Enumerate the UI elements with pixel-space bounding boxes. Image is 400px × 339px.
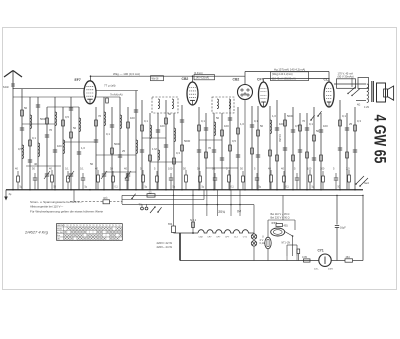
svg-text:4Ω: 4Ω bbox=[357, 104, 360, 107]
svg-text:25: 25 bbox=[349, 122, 353, 126]
svg-text:100: 100 bbox=[279, 122, 284, 126]
svg-text:100: 100 bbox=[160, 124, 165, 128]
svg-text:0,1MΩ: 0,1MΩ bbox=[278, 134, 282, 142]
svg-text:4: 4 bbox=[106, 225, 107, 227]
svg-text:4: 4 bbox=[103, 225, 104, 227]
svg-text:1:29: 1:29 bbox=[364, 106, 369, 109]
svg-text:70: 70 bbox=[98, 114, 102, 118]
svg-text:0,1: 0,1 bbox=[254, 119, 258, 123]
svg-text:2,0: 2,0 bbox=[346, 167, 350, 171]
svg-text:4: 4 bbox=[97, 225, 98, 227]
svg-text:22: 22 bbox=[149, 191, 153, 195]
svg-text:77 µ (alt): 77 µ (alt) bbox=[104, 84, 116, 88]
svg-text:220–: 220– bbox=[314, 269, 320, 271]
svg-text:0,1: 0,1 bbox=[212, 167, 216, 171]
svg-text:4: 4 bbox=[87, 225, 88, 227]
svg-text:220V~ 24 W: 220V~ 24 W bbox=[157, 245, 173, 249]
svg-text:50: 50 bbox=[216, 116, 220, 120]
svg-text:GW-Nr: GW-Nr bbox=[57, 225, 64, 227]
svg-text:2/4627 4 Krg: 2/4627 4 Krg bbox=[24, 229, 49, 234]
svg-text:4: 4 bbox=[119, 225, 120, 227]
svg-text:100: 100 bbox=[323, 124, 328, 128]
svg-text:Strom- u. Spannungswerte bei 2: Strom- u. Spannungswerte bei 220 V— bbox=[30, 200, 82, 204]
svg-text:RÖ: RÖ bbox=[104, 196, 108, 200]
svg-text:0,5: 0,5 bbox=[295, 124, 299, 128]
svg-text:0,05: 0,05 bbox=[302, 256, 307, 259]
svg-text:4: 4 bbox=[64, 225, 65, 227]
svg-text:NT1–2N: NT1–2N bbox=[282, 243, 291, 245]
svg-text:Si 0,2: Si 0,2 bbox=[190, 219, 197, 222]
svg-text:U: U bbox=[262, 236, 264, 239]
svg-text:140 4,2(mA): 140 4,2(mA) bbox=[196, 77, 210, 80]
svg-text:1,0: 1,0 bbox=[81, 146, 85, 150]
svg-text:1,0: 1,0 bbox=[240, 122, 244, 126]
svg-text:CF7: CF7 bbox=[257, 78, 264, 82]
svg-text:4: 4 bbox=[93, 225, 94, 227]
svg-text:Wk 08: Wk 08 bbox=[152, 77, 159, 80]
svg-text:0,3: 0,3 bbox=[357, 119, 361, 123]
svg-text:7mA/(mA): 7mA/(mA) bbox=[110, 93, 123, 97]
svg-text:0,1: 0,1 bbox=[65, 167, 69, 171]
svg-text:4: 4 bbox=[67, 225, 68, 227]
svg-text:TA: TA bbox=[139, 203, 143, 207]
svg-text:4: 4 bbox=[77, 225, 78, 227]
svg-text:100: 100 bbox=[307, 167, 312, 171]
svg-text:5000: 5000 bbox=[114, 142, 121, 146]
svg-text:0,3: 0,3 bbox=[176, 151, 180, 155]
svg-text:4: 4 bbox=[113, 225, 114, 227]
svg-text:EF7: EF7 bbox=[75, 78, 81, 82]
svg-text:50: 50 bbox=[90, 162, 94, 166]
svg-text:0,1: 0,1 bbox=[342, 114, 346, 118]
svg-text:16µF: 16µF bbox=[340, 227, 346, 230]
svg-text:64nF: 64nF bbox=[3, 85, 9, 89]
svg-text:Wkg — 100 (0,3 mA): Wkg — 100 (0,3 mA) bbox=[113, 72, 140, 76]
svg-text:50: 50 bbox=[260, 124, 264, 128]
svg-text:50: 50 bbox=[73, 126, 77, 130]
svg-text:4: 4 bbox=[90, 225, 91, 227]
svg-text:4: 4 bbox=[100, 225, 101, 227]
svg-text:0,5: 0,5 bbox=[232, 139, 236, 143]
svg-text:0,1: 0,1 bbox=[106, 132, 110, 136]
svg-text:464: 464 bbox=[346, 256, 351, 259]
svg-text:100: 100 bbox=[130, 116, 135, 120]
svg-text:1,0: 1,0 bbox=[272, 114, 276, 118]
svg-text:4: 4 bbox=[71, 225, 72, 227]
svg-text:0,1: 0,1 bbox=[201, 119, 205, 123]
svg-text:1 M: 1 M bbox=[152, 147, 157, 151]
svg-text:CB2: CB2 bbox=[233, 78, 240, 82]
svg-text:dr.-Nd: dr.-Nd bbox=[57, 232, 62, 234]
svg-text:240V: 240V bbox=[328, 269, 334, 271]
svg-text:110 45mA 190(30mA): 110 45mA 190(30mA) bbox=[272, 78, 296, 81]
svg-text:5000: 5000 bbox=[40, 117, 47, 121]
svg-text:100: 100 bbox=[168, 167, 173, 171]
svg-text:CL2: CL2 bbox=[324, 78, 331, 82]
svg-text:0,1A: 0,1A bbox=[260, 242, 265, 245]
svg-text:Allstromgeräte bei 110 V—: Allstromgeräte bei 110 V— bbox=[30, 205, 63, 209]
svg-text:0,5: 0,5 bbox=[65, 115, 69, 119]
svg-text:5000: 5000 bbox=[184, 139, 191, 143]
svg-text:70: 70 bbox=[302, 119, 306, 123]
svg-text:4: 4 bbox=[110, 225, 111, 227]
svg-text:0,1: 0,1 bbox=[144, 119, 148, 123]
svg-text:4: 4 bbox=[80, 225, 81, 227]
svg-text:50: 50 bbox=[24, 106, 28, 110]
svg-text:4 GW 65: 4 GW 65 bbox=[370, 115, 388, 164]
svg-text:0,5: 0,5 bbox=[18, 147, 22, 151]
svg-text:4: 4 bbox=[84, 225, 85, 227]
svg-text:0,1: 0,1 bbox=[309, 122, 313, 126]
svg-text:CY1: CY1 bbox=[272, 221, 278, 225]
svg-text:25: 25 bbox=[122, 149, 126, 153]
svg-text:654: 654 bbox=[168, 222, 173, 226]
svg-text:04: 04 bbox=[237, 210, 241, 214]
svg-text:70: 70 bbox=[208, 146, 212, 150]
svg-text:0,1: 0,1 bbox=[32, 136, 36, 140]
svg-text:50: 50 bbox=[316, 129, 320, 133]
svg-text:40: 40 bbox=[34, 162, 38, 166]
svg-text:4: 4 bbox=[74, 225, 75, 227]
svg-text:35¾: 35¾ bbox=[218, 210, 225, 214]
svg-text:70: 70 bbox=[49, 128, 53, 132]
svg-text:(90 V 30mA=): (90 V 30mA=) bbox=[338, 75, 354, 79]
svg-text:4: 4 bbox=[116, 225, 117, 227]
svg-text:100: 100 bbox=[224, 124, 229, 128]
svg-text:(Wkg) 140 4,2(mA): (Wkg) 140 4,2(mA) bbox=[272, 73, 293, 76]
svg-text:100: 100 bbox=[320, 167, 325, 171]
svg-text:Netz: Netz bbox=[364, 182, 370, 185]
svg-text:CY1: CY1 bbox=[318, 248, 324, 252]
svg-text:50: 50 bbox=[168, 112, 172, 116]
svg-text:45Ω: 45Ω bbox=[284, 226, 289, 228]
svg-text:0,1: 0,1 bbox=[80, 167, 84, 171]
svg-text:Hg 157(mA) 140 4,2(mA): Hg 157(mA) 140 4,2(mA) bbox=[274, 68, 305, 72]
svg-text:5000: 5000 bbox=[287, 114, 294, 118]
svg-text:Bei 220 V + 90 Ω: Bei 220 V + 90 Ω bbox=[271, 216, 290, 219]
svg-text:Für Wechselspannung gelten die: Für Wechselspannung gelten die etwas höh… bbox=[30, 209, 103, 213]
svg-text:CB2: CB2 bbox=[182, 77, 189, 81]
svg-text:100: 100 bbox=[57, 144, 62, 148]
